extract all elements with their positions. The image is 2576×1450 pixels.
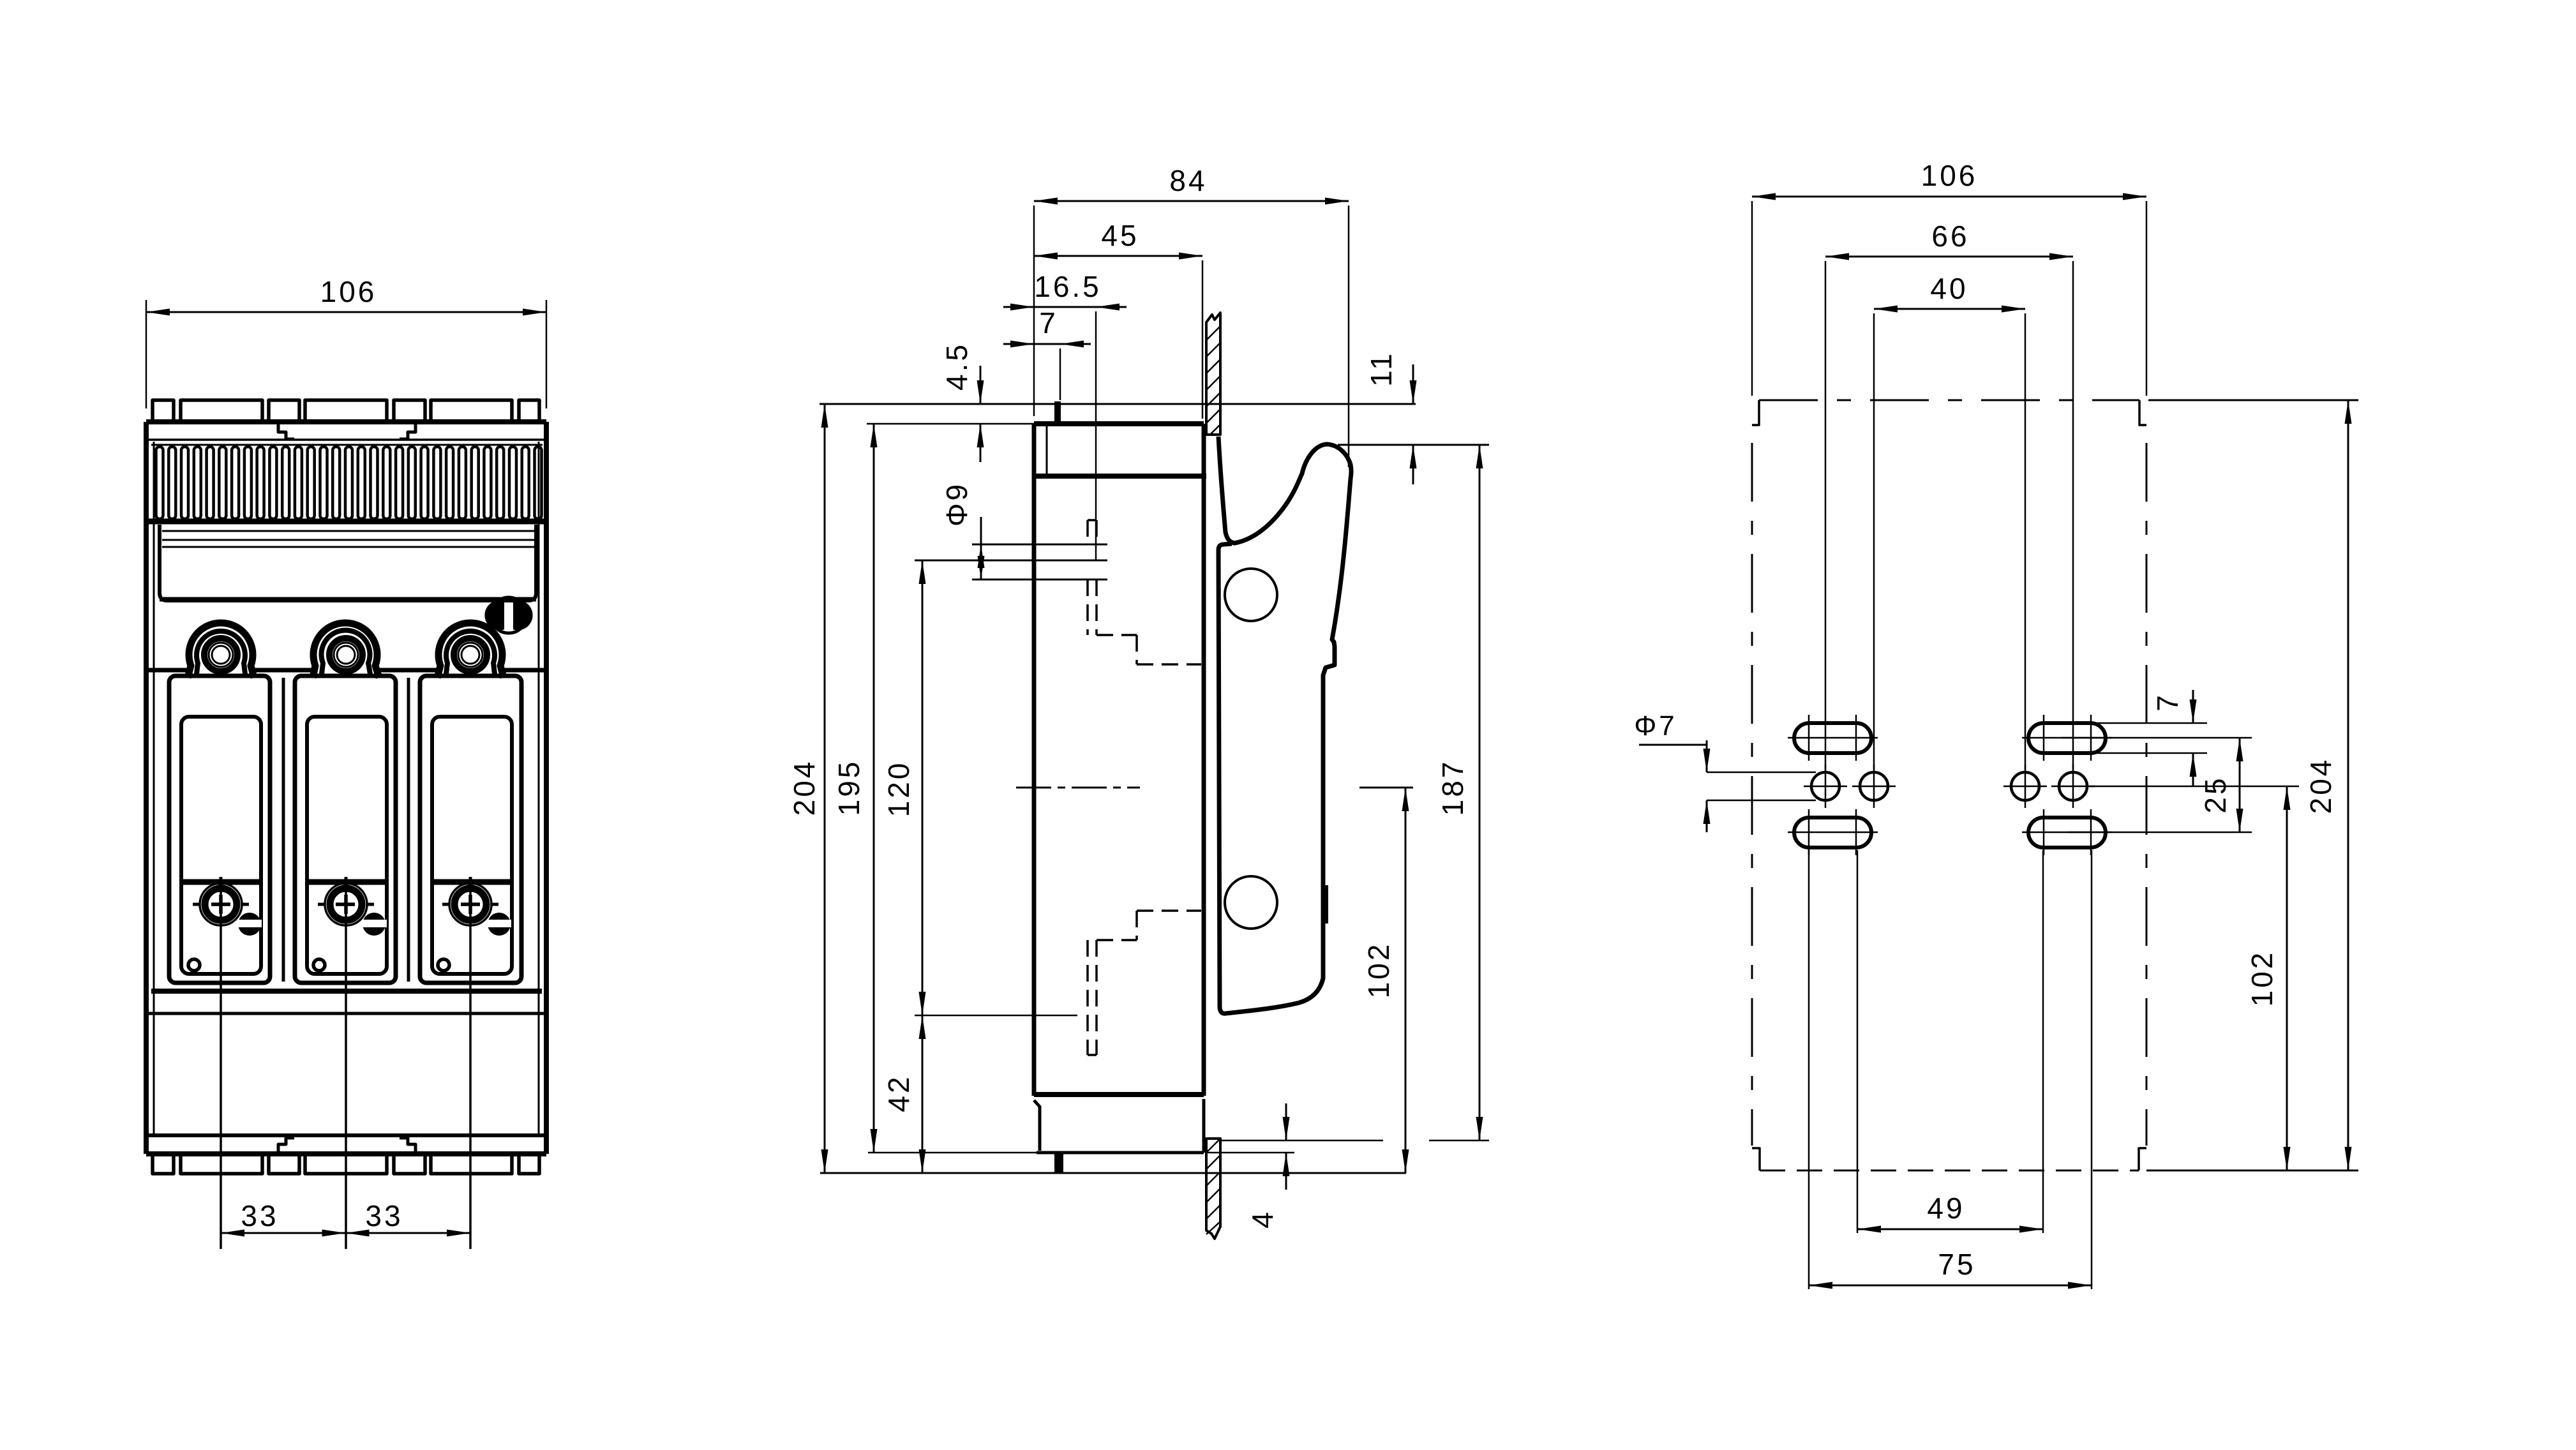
pole windows (3 fuse carriers) bbox=[169, 676, 270, 983]
fuse cover grip band bbox=[160, 525, 536, 601]
dimension 4 (panel gap) bbox=[1221, 1140, 1383, 1142]
dimension 4.5 bbox=[980, 366, 982, 404]
svg-text:102: 102 bbox=[1362, 942, 1395, 999]
svg-text:25: 25 bbox=[2199, 775, 2232, 813]
mounting panel cross-section lower (hatched) bbox=[1206, 1139, 1220, 1239]
svg-text:11: 11 bbox=[1365, 351, 1398, 387]
panel bottom reference extension bbox=[2146, 1170, 2358, 1172]
mounting panel surface line (top) bbox=[820, 403, 1416, 405]
dimension 75 bbox=[1808, 850, 1810, 1289]
handle hole lower bbox=[1225, 876, 1277, 929]
fuse grip screw bbox=[200, 883, 242, 925]
dimension 42 bbox=[915, 1015, 1077, 1017]
svg-text:33: 33 bbox=[241, 1199, 278, 1232]
fuse grip screw bbox=[325, 883, 367, 925]
svg-text:102: 102 bbox=[2245, 950, 2279, 1007]
svg-text:204: 204 bbox=[2304, 758, 2337, 814]
dimension 102 (side) bbox=[1405, 788, 1407, 1173]
slotted screw bbox=[238, 913, 261, 936]
dimension 25 bbox=[2062, 737, 2252, 739]
svg-text:33: 33 bbox=[365, 1199, 403, 1232]
dimension 45 bbox=[1202, 260, 1204, 419]
dimension phi9 bbox=[980, 517, 982, 544]
slotted screw bbox=[363, 913, 386, 936]
dimension phi7 leader bbox=[1639, 744, 1707, 746]
indicator hole bbox=[313, 959, 325, 971]
hidden contour lower (dashed) bbox=[1086, 940, 1089, 1055]
svg-text:4: 4 bbox=[1246, 1209, 1279, 1229]
body side inner lines bbox=[153, 442, 155, 1135]
dimension 40 bbox=[1873, 313, 1875, 769]
panel top reference extension bbox=[2148, 400, 2358, 401]
hidden contour upper (dashed) bbox=[1086, 520, 1089, 544]
dimension 49 bbox=[1857, 850, 1859, 1233]
DIN tab top (black) bbox=[1054, 401, 1061, 424]
dimension 106 (drilling) bbox=[1751, 201, 1753, 396]
svg-text:106: 106 bbox=[1921, 159, 1978, 192]
dimension 7 (slot width) bbox=[2068, 722, 2207, 724]
svg-text:4.5: 4.5 bbox=[940, 342, 973, 391]
handle hole upper bbox=[1225, 569, 1277, 621]
dimension 120 bbox=[922, 560, 924, 1015]
mounting panel cross-section upper (hatched) bbox=[1206, 313, 1220, 435]
front view bottom mounting tabs bbox=[153, 1154, 174, 1174]
svg-text:195: 195 bbox=[832, 759, 865, 816]
top beam snap notches bbox=[278, 424, 294, 439]
handle top reference line bbox=[1338, 444, 1489, 446]
mounting holes phi7 with center marks bbox=[1811, 772, 1839, 800]
pole divider walls bbox=[282, 678, 285, 982]
dimension 204 (side) bbox=[824, 404, 826, 1173]
dimension 195 bbox=[867, 423, 1034, 425]
side view center line (dash-dot) bbox=[1016, 787, 1140, 789]
lower base band bbox=[151, 989, 542, 994]
svg-text:84: 84 bbox=[1169, 164, 1207, 197]
dimension 7 (tab offset) bbox=[1060, 348, 1061, 400]
dimension 187 bbox=[1429, 1140, 1489, 1142]
svg-text:7: 7 bbox=[1039, 306, 1058, 340]
svg-text:42: 42 bbox=[882, 1074, 915, 1112]
drilling plan panel outline (dash-dot) bbox=[1759, 400, 2139, 401]
slotted screw bbox=[488, 913, 511, 936]
side view lower cap bbox=[1034, 1099, 1204, 1153]
svg-text:75: 75 bbox=[1938, 1248, 1975, 1281]
svg-text:106: 106 bbox=[320, 275, 377, 308]
svg-text:66: 66 bbox=[1931, 220, 1969, 253]
terminal arches with screws (3 poles) bbox=[188, 623, 254, 678]
svg-text:7: 7 bbox=[2151, 692, 2184, 712]
svg-text:49: 49 bbox=[1927, 1192, 1965, 1225]
svg-text:40: 40 bbox=[1930, 272, 1968, 305]
svg-text:45: 45 bbox=[1101, 219, 1139, 252]
indicator hole bbox=[188, 959, 200, 971]
mounting slots upper row bbox=[1794, 723, 1871, 753]
dimension 11 bbox=[1412, 364, 1414, 404]
dimension 106 (front view overall width) bbox=[146, 300, 147, 408]
dimension 16.5 bbox=[1095, 311, 1097, 560]
handle latch bump bbox=[1322, 885, 1328, 923]
svg-text:Φ9: Φ9 bbox=[940, 482, 973, 527]
svg-text:187: 187 bbox=[1436, 759, 1469, 816]
phi9 hole edge lines bbox=[972, 544, 1107, 546]
hole center line / 120 reference bbox=[915, 560, 1107, 562]
dimension 102 (drilling) bbox=[2088, 786, 2299, 788]
padlock / interlock knob bbox=[491, 597, 527, 633]
dimension 66 bbox=[1825, 261, 1827, 769]
DIN tab bottom (black) bbox=[1054, 1153, 1063, 1173]
fuse grip screw bbox=[449, 883, 491, 925]
bottom plate bbox=[146, 1133, 546, 1137]
dimension 84 bbox=[1033, 206, 1035, 416]
svg-text:120: 120 bbox=[882, 761, 915, 818]
svg-text:204: 204 bbox=[788, 759, 821, 816]
dimension 204 (drilling) bbox=[2348, 400, 2349, 1170]
front view body outline bbox=[146, 419, 546, 424]
operating handle silhouette bbox=[1218, 437, 1351, 1013]
panel outline corner steps bbox=[1752, 400, 1759, 425]
side view body bbox=[1034, 421, 1204, 426]
svg-text:Φ7: Φ7 bbox=[1634, 710, 1677, 742]
bottom reference line (side) bbox=[820, 1172, 1406, 1174]
ventilation ribs band bbox=[151, 444, 543, 446]
dimension 33 33 (pole pitch) bbox=[220, 885, 222, 1249]
front view top mounting tabs bbox=[153, 400, 174, 422]
mounting slots lower row bbox=[1794, 818, 1871, 848]
terminal arch baseline bbox=[146, 668, 188, 673]
svg-text:16.5: 16.5 bbox=[1034, 270, 1102, 303]
indicator hole bbox=[438, 959, 449, 971]
